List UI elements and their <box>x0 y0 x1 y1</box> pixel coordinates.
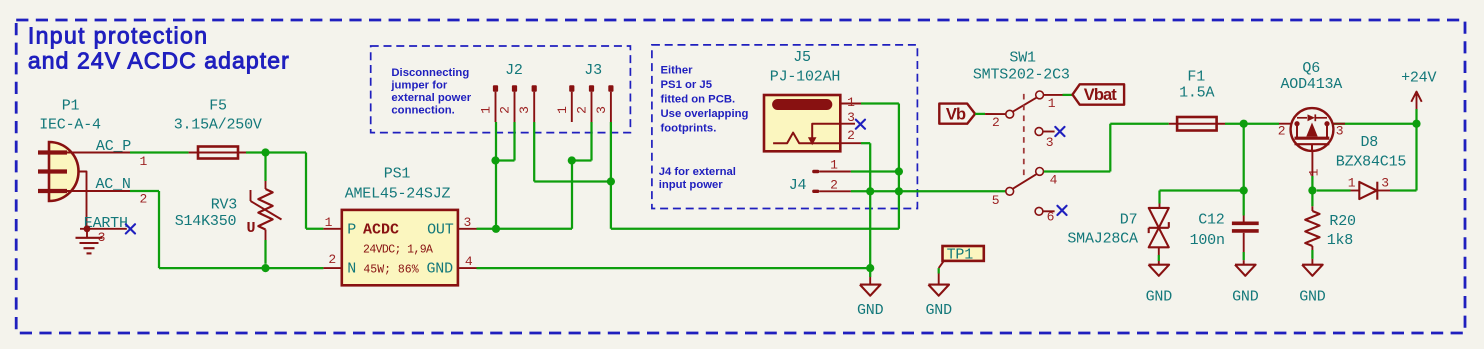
pin 2 of J5 <box>840 128 861 143</box>
label IEC-A-4 <box>39 117 101 134</box>
no-connect X on EARTH <box>126 224 135 233</box>
wire F5 to corner <box>246 151 306 153</box>
label J3 <box>584 62 602 79</box>
PS1 text ACDC <box>363 222 399 239</box>
svg-text:GND: GND <box>857 302 884 319</box>
node J4 pin1 junction <box>895 167 903 175</box>
wire gate to junction <box>1311 176 1313 191</box>
svg-text:100n: 100n <box>1190 232 1225 249</box>
node AC_P junction at F5 <box>261 148 269 156</box>
pin 6 of SW1 <box>1035 207 1055 224</box>
J3 pin numbers <box>555 106 609 114</box>
wire J5 pin1 to column <box>861 102 899 104</box>
SW1 pole1 common contact <box>1006 110 1014 118</box>
svg-text:1: 1 <box>325 215 333 230</box>
barrel jack J5 body <box>764 95 840 151</box>
node GND rail junction <box>866 264 874 272</box>
node ext junction <box>607 177 615 185</box>
note box disconnecting jumper (blue dashed) <box>371 46 631 133</box>
svg-text:3.15A/250V: 3.15A/250V <box>174 117 262 134</box>
svg-text:1: 1 <box>1048 96 1056 111</box>
svg-text:GND: GND <box>426 261 453 278</box>
pin 1 of Q6 (gate) <box>1311 151 1313 176</box>
node C12 junction <box>1240 186 1248 194</box>
value AMEL45-24SJZ <box>345 186 451 203</box>
wire Vb to SW1 pin2 <box>975 113 985 115</box>
svg-text:PS1: PS1 <box>384 165 411 182</box>
wire corner to PS1 pin1 <box>306 228 323 230</box>
svg-text:GND: GND <box>925 302 952 319</box>
value SMTS202-2C3 <box>973 66 1070 83</box>
PS1 pin name N <box>347 261 356 278</box>
svg-text:2: 2 <box>830 178 838 193</box>
svg-text:D7: D7 <box>1120 212 1138 229</box>
svg-text:2: 2 <box>328 252 336 267</box>
svg-text:3: 3 <box>1336 124 1344 139</box>
svg-text:3: 3 <box>517 106 532 114</box>
svg-text:SMAJ28CA: SMAJ28CA <box>1067 231 1138 248</box>
pin 4 of PS1 <box>458 254 477 269</box>
svg-text:P: P <box>347 222 356 239</box>
resistor R20 <box>1305 206 1319 264</box>
wire PS1 GND east <box>477 267 871 269</box>
wire J2 pin2 down <box>513 122 515 161</box>
svg-text:Vb: Vb <box>946 106 966 124</box>
svg-text:SW1: SW1 <box>1009 49 1036 66</box>
ground GND at TP1 <box>925 285 952 319</box>
label J5 <box>793 49 811 66</box>
svg-text:J5: J5 <box>793 49 811 66</box>
no-connect X on SW1 pin6 <box>1057 206 1066 215</box>
pin 2 of PS1 <box>323 252 341 268</box>
fuse F1 <box>1169 117 1225 131</box>
hierarchical label Vb <box>939 104 975 124</box>
svg-text:BZX84C15: BZX84C15 <box>1336 153 1407 170</box>
wire RV3 to AC_N rail <box>264 240 266 264</box>
pin 3 of P1 (EARTH) <box>80 229 127 245</box>
pin 2 of P1 (AC_N) <box>67 191 147 207</box>
label F5 <box>209 97 227 114</box>
svg-text:footprints.: footprints. <box>661 123 717 135</box>
varistor RV3 <box>246 181 281 240</box>
SW1 pole2 lever <box>1013 174 1037 189</box>
label P1 <box>62 97 80 114</box>
value SMAJ28CA <box>1067 231 1138 248</box>
label D8 <box>1360 134 1378 151</box>
ground GND at R20 <box>1299 265 1326 306</box>
junction earth node <box>84 225 91 232</box>
svg-text:jumper for: jumper for <box>390 79 447 91</box>
pin 1 of P1 (AC_P) <box>67 153 147 170</box>
wire J2 pin3 to J3 pin3 <box>534 180 611 182</box>
svg-text:SMTS202-2C3: SMTS202-2C3 <box>973 66 1070 83</box>
svg-text:J2: J2 <box>505 62 523 79</box>
svg-text:P1: P1 <box>62 97 80 114</box>
svg-text:1: 1 <box>847 95 855 110</box>
wire J5 pin2 down (GND column) <box>869 143 871 277</box>
wire GND rail to SW1 pin5 <box>851 190 1006 192</box>
note text disconnecting jumper <box>390 67 471 117</box>
Q6 pin numbers <box>1278 124 1344 177</box>
SW1 pole1 throw contact pin1 <box>1036 91 1056 111</box>
pin name AC_N <box>95 176 130 193</box>
power flag +24V <box>1401 70 1436 110</box>
label Q6 <box>1302 60 1320 77</box>
svg-text:45W; 86%: 45W; 86% <box>363 264 418 277</box>
svg-text:connection.: connection. <box>391 104 454 116</box>
svg-text:ACDC: ACDC <box>363 222 399 239</box>
wire AC_P P1 to F5 <box>130 151 189 153</box>
wire to F1 <box>1110 123 1169 125</box>
svg-text:2: 2 <box>992 115 1000 130</box>
wire J3 pin3 column <box>610 122 612 229</box>
wire PS1 OUT east <box>477 228 573 230</box>
svg-text:4: 4 <box>465 254 473 269</box>
connector J3 <box>569 85 613 122</box>
svg-text:F1: F1 <box>1187 69 1205 86</box>
svg-text:external power: external power <box>391 92 471 104</box>
wire OUT up to J3 <box>571 161 573 229</box>
svg-text:GND: GND <box>1146 289 1173 306</box>
pin 3 of SW1 <box>1035 128 1055 150</box>
svg-text:IEC-A-4: IEC-A-4 <box>39 117 101 134</box>
title text <box>28 23 290 74</box>
graphic line P1 earth link <box>79 172 87 229</box>
label J4 <box>789 177 807 194</box>
wire ext up to J5 <box>898 104 900 229</box>
fuse F5 <box>189 147 246 159</box>
svg-text:2: 2 <box>498 106 513 114</box>
pin 2 of SW1 <box>985 114 1005 130</box>
value 1k8 <box>1327 232 1354 249</box>
PS1 text 24VDC; 1,9A <box>363 244 433 257</box>
label D7 <box>1120 212 1138 229</box>
mosfet Q6 <box>1279 108 1345 151</box>
svg-text:1: 1 <box>479 106 494 114</box>
svg-text:and 24V ACDC adapter: and 24V ACDC adapter <box>28 47 290 73</box>
svg-text:1: 1 <box>830 157 838 172</box>
svg-text:Either: Either <box>661 64 694 76</box>
node OUT junction <box>492 225 500 233</box>
value 1.5A <box>1179 85 1214 102</box>
wire SW1 pin4 east <box>1044 170 1111 172</box>
no-connect X on J5 pin 3 <box>856 120 865 129</box>
wire D8 up to +24V rail <box>1415 124 1417 191</box>
wire AC_N P1 east <box>130 190 159 192</box>
svg-text:AOD413A: AOD413A <box>1280 76 1342 93</box>
svg-text:N: N <box>347 261 356 278</box>
svg-text:1: 1 <box>139 154 147 169</box>
wire J2 pin2 to pin1 <box>495 159 515 161</box>
wire F1 to Q6 <box>1225 123 1279 125</box>
wire AC_N down <box>158 191 160 268</box>
wire J2 pin3 down <box>533 122 535 182</box>
value AOD413A <box>1280 76 1342 93</box>
label F1 <box>1187 69 1205 86</box>
svg-text:3: 3 <box>1046 135 1054 150</box>
svg-text:AMEL45-24SJZ: AMEL45-24SJZ <box>345 186 451 203</box>
label J2 <box>505 62 523 79</box>
PS1 text 45W; 86% <box>363 264 418 277</box>
svg-text:RV3: RV3 <box>211 196 238 213</box>
pin name EARTH <box>84 215 128 232</box>
value PJ-102AH <box>770 69 840 86</box>
wire D7 stub <box>1158 191 1160 208</box>
SW1 mechanical link (dashed) <box>1023 94 1025 176</box>
PS1 pin name GND <box>426 261 453 278</box>
tvs diode D7 <box>1149 208 1169 265</box>
pin 1 of J5 <box>840 95 861 110</box>
svg-text:J4: J4 <box>789 177 807 194</box>
PS1 pin name P <box>347 222 356 239</box>
node J3 jumper junction <box>568 156 576 164</box>
svg-text:PJ-102AH: PJ-102AH <box>770 69 840 86</box>
hierarchical label Vbat <box>1073 84 1125 104</box>
J4 pin numbers <box>830 157 838 192</box>
svg-text:U: U <box>246 220 255 237</box>
svg-text:R20: R20 <box>1329 213 1356 230</box>
wire J5 pin2 east <box>861 142 870 144</box>
svg-text:J3: J3 <box>584 62 602 79</box>
svg-text:1: 1 <box>1348 176 1356 191</box>
node F1 junction <box>1240 120 1248 128</box>
svg-text:24VDC; 1,9A: 24VDC; 1,9A <box>363 244 433 257</box>
earth ground symbol <box>76 229 103 254</box>
node J2 jumper junction <box>491 156 499 164</box>
pin 4 of SW1 <box>1036 168 1058 188</box>
node +24V junction <box>1412 120 1420 128</box>
svg-text:1.5A: 1.5A <box>1179 85 1214 102</box>
svg-text:2: 2 <box>139 192 147 207</box>
test point TP1 <box>939 246 984 285</box>
wire down to C12 <box>1243 124 1245 216</box>
svg-text:S14K350: S14K350 <box>175 213 237 230</box>
note text either PS1 or J5 <box>661 64 749 134</box>
connector P1 body <box>38 142 79 201</box>
svg-text:Vbat: Vbat <box>1084 86 1118 104</box>
wire corner down <box>305 153 307 229</box>
wire J3 pin2 to pin1 <box>571 159 592 161</box>
wire D8 east <box>1390 189 1417 191</box>
node GND junction at ext column <box>895 187 903 195</box>
wire junction to R20 <box>1311 191 1313 207</box>
svg-text:4: 4 <box>1050 173 1058 188</box>
zener diode D8 <box>1351 182 1391 200</box>
svg-text:2: 2 <box>575 106 590 114</box>
wire AC_N rail to PS1 pin2 <box>159 267 323 269</box>
svg-text:2: 2 <box>847 128 855 143</box>
pin 3 of J5 <box>840 110 855 125</box>
note text J4 for external <box>659 166 736 191</box>
svg-text:F5: F5 <box>209 97 227 114</box>
label C12 <box>1198 212 1224 229</box>
node gate junction <box>1308 186 1316 194</box>
svg-text:3: 3 <box>847 110 855 125</box>
value S14K350 <box>175 213 237 230</box>
pin 5 of SW1 <box>992 187 1014 208</box>
svg-text:3: 3 <box>1381 176 1389 191</box>
wire junction to D8 <box>1317 189 1351 191</box>
pin name AC_P <box>96 138 131 155</box>
pin 1 wire to Vbat <box>1044 94 1073 96</box>
svg-text:C12: C12 <box>1198 212 1224 229</box>
label SW1 <box>1009 49 1036 66</box>
wire J2 pin1 column <box>495 122 497 229</box>
svg-text:TP1: TP1 <box>947 246 974 263</box>
ground GND main <box>857 277 884 319</box>
connector J4 <box>812 170 851 193</box>
pin 3 of PS1 <box>458 215 477 230</box>
wire C12 junction west to D7 <box>1160 189 1244 191</box>
svg-text:1: 1 <box>1307 168 1322 176</box>
wire F5 junction down to RV3 <box>264 153 266 182</box>
svg-text:D8: D8 <box>1360 134 1378 151</box>
svg-text:Q6: Q6 <box>1302 60 1320 77</box>
pin 1 of PS1 <box>323 215 341 230</box>
no-connect X on SW1 pin3 <box>1055 127 1064 136</box>
svg-text:2: 2 <box>1278 124 1286 139</box>
wire ext east <box>611 228 899 230</box>
value 3.15A/250V <box>174 117 262 134</box>
wire J3 pin2 down <box>590 122 592 161</box>
svg-text:EARTH: EARTH <box>84 215 128 232</box>
svg-text:OUT: OUT <box>427 222 454 239</box>
D8 pin numbers <box>1348 176 1389 191</box>
svg-text:+24V: +24V <box>1401 70 1436 87</box>
connector J2 <box>493 85 537 122</box>
wire +24V up <box>1415 109 1417 124</box>
svg-text:5: 5 <box>992 193 1000 208</box>
svg-text:AC_P: AC_P <box>96 138 131 155</box>
svg-text:PS1 or J5: PS1 or J5 <box>661 79 713 91</box>
label PS1 <box>384 165 411 182</box>
label RV3 <box>211 196 238 213</box>
capacitor C12 <box>1232 216 1259 265</box>
value BZX84C15 <box>1336 153 1407 170</box>
svg-text:GND: GND <box>1232 289 1259 306</box>
ground GND at D7 <box>1146 265 1173 306</box>
ground GND at C12 <box>1232 265 1259 306</box>
wire up to F1 row <box>1109 124 1111 172</box>
label R20 <box>1329 213 1356 230</box>
J2 pin numbers <box>479 106 533 114</box>
svg-text:Input protection: Input protection <box>28 23 208 49</box>
SW1 pole1 lever <box>1013 98 1037 112</box>
svg-text:1k8: 1k8 <box>1327 232 1354 249</box>
wire Q6 drain east <box>1333 123 1416 125</box>
svg-text:input power: input power <box>659 179 724 191</box>
node AC_N junction at RV3 <box>261 264 269 272</box>
svg-text:6: 6 <box>1047 210 1055 225</box>
node GND junction at J5 column <box>866 187 874 195</box>
power module PS1 body <box>342 210 458 285</box>
svg-text:GND: GND <box>1299 289 1326 306</box>
svg-text:Disconnecting: Disconnecting <box>391 67 469 79</box>
svg-text:AC_N: AC_N <box>95 176 130 193</box>
svg-text:J4 for external: J4 for external <box>659 166 736 178</box>
svg-text:fitted on PCB.: fitted on PCB. <box>661 94 736 106</box>
svg-text:1: 1 <box>555 106 570 114</box>
wire J4 pin1 to column <box>851 170 899 172</box>
PS1 pin name OUT <box>427 222 454 239</box>
svg-text:Use overlapping: Use overlapping <box>661 108 749 120</box>
value 100n <box>1190 232 1225 249</box>
svg-text:3: 3 <box>463 215 471 230</box>
svg-text:3: 3 <box>594 106 609 114</box>
note box overlapping footprints (blue dashed) <box>652 45 918 209</box>
